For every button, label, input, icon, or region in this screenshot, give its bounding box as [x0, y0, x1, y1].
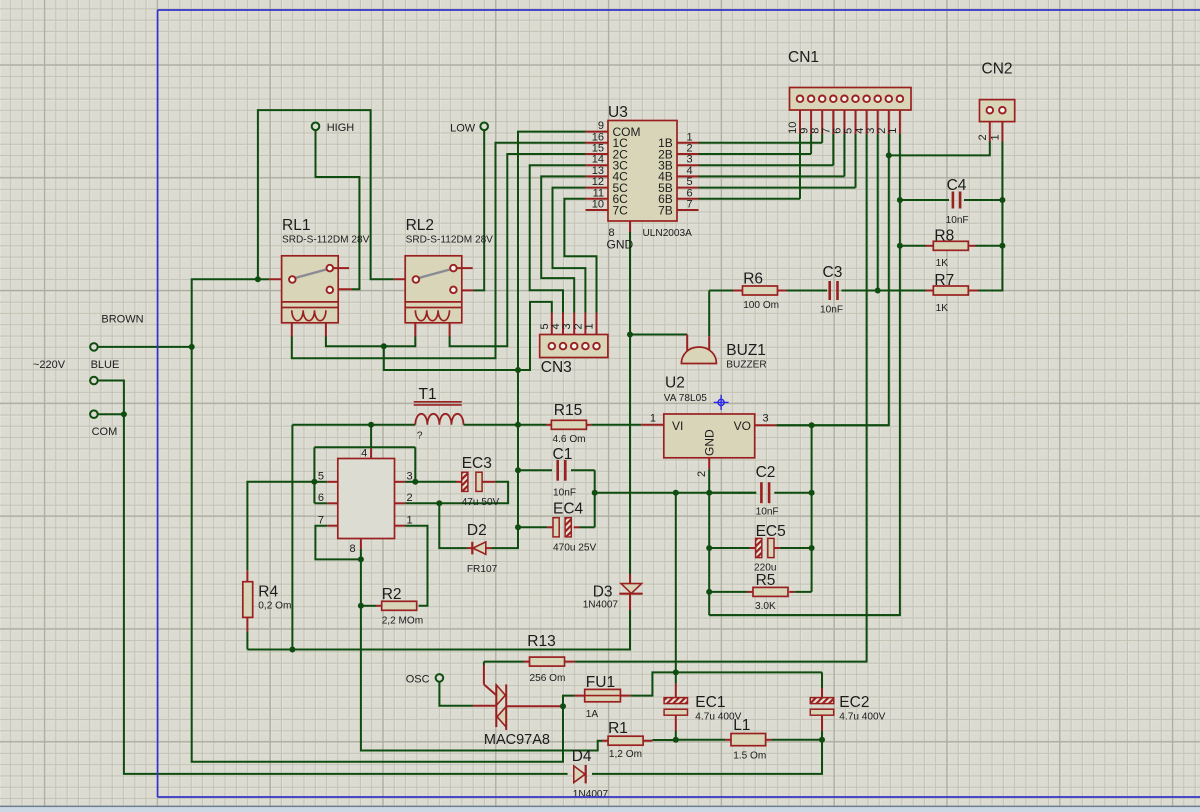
- svg-text:C3: C3: [823, 264, 843, 281]
- svg-text:CN2: CN2: [982, 61, 1013, 78]
- svg-text:FR107: FR107: [467, 564, 498, 575]
- svg-text:R15: R15: [554, 402, 582, 419]
- svg-text:1N4007: 1N4007: [573, 789, 609, 800]
- svg-text:L1: L1: [733, 717, 750, 734]
- svg-text:EC5: EC5: [756, 523, 786, 540]
- svg-text:COM: COM: [92, 426, 118, 438]
- svg-text:4: 4: [550, 323, 562, 329]
- svg-text:12: 12: [592, 176, 604, 188]
- svg-text:R1: R1: [608, 720, 628, 737]
- svg-text:16: 16: [592, 131, 604, 143]
- svg-text:3.0K: 3.0K: [755, 601, 776, 612]
- svg-text:VA 78L05: VA 78L05: [664, 393, 707, 404]
- svg-text:C4: C4: [947, 177, 967, 194]
- svg-text:R7: R7: [934, 272, 954, 289]
- svg-text:T1: T1: [419, 386, 437, 403]
- svg-text:2: 2: [696, 471, 708, 477]
- svg-text:R5: R5: [756, 572, 776, 589]
- svg-text:1: 1: [687, 131, 693, 143]
- svg-text:3: 3: [561, 323, 573, 329]
- svg-text:1.5 Om: 1.5 Om: [733, 751, 766, 762]
- svg-text:?: ?: [417, 431, 423, 442]
- svg-text:MAC97A8: MAC97A8: [484, 732, 550, 748]
- svg-text:15: 15: [592, 143, 604, 155]
- svg-text:U2: U2: [665, 375, 685, 392]
- svg-text:OSC: OSC: [406, 674, 430, 686]
- svg-text:RL1: RL1: [282, 217, 310, 234]
- svg-text:1,2 Om: 1,2 Om: [609, 749, 642, 760]
- svg-text:5: 5: [318, 471, 324, 483]
- svg-text:D3: D3: [593, 584, 613, 601]
- svg-text:10nF: 10nF: [820, 305, 843, 316]
- svg-text:3: 3: [687, 154, 693, 166]
- svg-text:1K: 1K: [936, 303, 949, 314]
- svg-text:SRD-S-112DM 28V: SRD-S-112DM 28V: [282, 235, 370, 246]
- svg-text:7: 7: [687, 199, 693, 211]
- svg-text:GND: GND: [703, 429, 717, 456]
- svg-text:2: 2: [407, 492, 413, 504]
- svg-text:R6: R6: [743, 271, 763, 288]
- svg-text:C2: C2: [756, 464, 776, 481]
- svg-text:4.7u 400V: 4.7u 400V: [839, 712, 885, 723]
- svg-text:R13: R13: [527, 633, 555, 650]
- svg-text:BROWN: BROWN: [101, 314, 143, 326]
- svg-text:D4: D4: [572, 748, 592, 765]
- svg-text:1N4007: 1N4007: [583, 600, 619, 611]
- svg-text:5: 5: [539, 323, 551, 329]
- svg-text:0,2 Om: 0,2 Om: [258, 601, 291, 612]
- svg-text:10nF: 10nF: [946, 215, 969, 226]
- svg-text:D2: D2: [467, 522, 487, 539]
- svg-text:5: 5: [687, 176, 693, 188]
- svg-text:100 Om: 100 Om: [743, 300, 779, 311]
- svg-text:10nF: 10nF: [756, 507, 779, 518]
- svg-text:256 Om: 256 Om: [530, 673, 566, 684]
- svg-text:EC1: EC1: [695, 694, 725, 711]
- svg-text:4: 4: [361, 448, 367, 460]
- svg-text:FU1: FU1: [586, 674, 615, 691]
- svg-text:7C: 7C: [613, 203, 629, 217]
- svg-text:EC2: EC2: [839, 694, 869, 711]
- svg-text:7: 7: [318, 514, 324, 526]
- svg-text:R2: R2: [382, 586, 402, 603]
- svg-text:BUZZER: BUZZER: [726, 360, 766, 371]
- svg-text:4: 4: [687, 165, 693, 177]
- svg-text:VO: VO: [734, 419, 751, 433]
- svg-text:1: 1: [650, 413, 656, 425]
- svg-text:HIGH: HIGH: [327, 122, 355, 134]
- svg-text:EC3: EC3: [462, 455, 492, 472]
- svg-text:9: 9: [598, 120, 604, 132]
- svg-text:3: 3: [763, 413, 769, 425]
- svg-text:BLUE: BLUE: [91, 359, 120, 371]
- svg-text:U3: U3: [608, 104, 628, 121]
- svg-text:4.6 Om: 4.6 Om: [553, 434, 586, 445]
- svg-text:R4: R4: [258, 584, 278, 601]
- svg-text:14: 14: [592, 154, 604, 166]
- svg-text:2: 2: [977, 134, 989, 140]
- svg-text:470u 25V: 470u 25V: [553, 543, 596, 554]
- svg-text:~220V: ~220V: [33, 359, 66, 371]
- svg-text:6: 6: [687, 187, 693, 199]
- svg-text:C1: C1: [553, 446, 573, 463]
- svg-text:10: 10: [592, 199, 604, 211]
- svg-text:RL2: RL2: [406, 217, 434, 234]
- svg-text:2: 2: [687, 143, 693, 155]
- svg-text:7B: 7B: [658, 203, 673, 217]
- svg-text:CN3: CN3: [541, 359, 572, 376]
- svg-text:EC4: EC4: [553, 501, 584, 518]
- svg-text:BUZ1: BUZ1: [726, 342, 766, 359]
- svg-text:1: 1: [584, 323, 596, 329]
- svg-text:1K: 1K: [936, 258, 949, 269]
- svg-text:SRD-S-112DM 28V: SRD-S-112DM 28V: [406, 235, 494, 246]
- svg-text:1A: 1A: [586, 709, 599, 720]
- svg-text:10nF: 10nF: [553, 488, 576, 499]
- svg-text:1: 1: [407, 514, 413, 526]
- svg-text:47u 50V: 47u 50V: [462, 497, 500, 508]
- svg-text:3: 3: [407, 471, 413, 483]
- svg-text:6: 6: [318, 492, 324, 504]
- svg-text:1: 1: [990, 134, 1002, 140]
- svg-text:8: 8: [350, 543, 356, 555]
- svg-text:ULN2003A: ULN2003A: [643, 228, 693, 239]
- svg-text:2,2 MOm: 2,2 MOm: [382, 616, 424, 627]
- svg-text:11: 11: [593, 187, 604, 199]
- svg-text:GND: GND: [607, 238, 634, 252]
- svg-text:VI: VI: [672, 419, 683, 433]
- svg-text:CN1: CN1: [788, 49, 819, 66]
- svg-text:13: 13: [592, 165, 604, 177]
- svg-text:LOW: LOW: [450, 123, 476, 135]
- svg-text:1: 1: [887, 128, 899, 134]
- svg-text:R8: R8: [934, 227, 954, 244]
